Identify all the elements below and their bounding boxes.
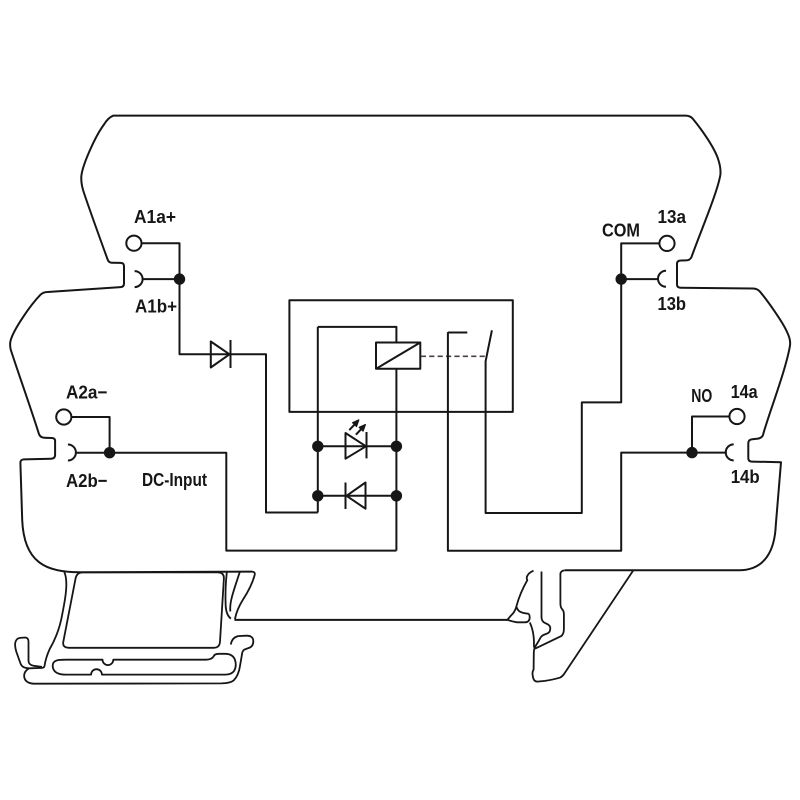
terminal circle A1a — [126, 236, 141, 251]
wire 13b to junction — [621, 278, 659, 280]
terminal circle 14a NO — [729, 409, 744, 424]
left foot right arm inner lines — [230, 572, 240, 612]
junction NO — [686, 447, 697, 458]
junction A2 — [104, 447, 115, 458]
svg-text:A1a+: A1a+ — [134, 206, 176, 227]
svg-text:DC-Input: DC-Input — [142, 469, 208, 490]
LED arrow 2 — [356, 429, 361, 434]
junction dots LED rows — [312, 441, 323, 452]
LED V1 — [346, 433, 367, 459]
left foot right edge to rail corner — [235, 572, 255, 620]
wire reverse diode row — [318, 495, 397, 497]
coil diagonal — [376, 343, 420, 369]
wire fixed contact to 14b — [448, 332, 727, 551]
wire LED row — [318, 445, 397, 447]
junction COM — [616, 273, 627, 284]
svg-text:13a: 13a — [658, 206, 687, 227]
terminal arc 14b — [726, 444, 734, 460]
left foot outer edge with thumb hook — [15, 572, 66, 669]
fixed contact top bar — [448, 332, 467, 334]
dashed actuation link — [421, 355, 486, 357]
svg-text:13b: 13b — [658, 293, 687, 314]
svg-text:A2b−: A2b− — [66, 470, 108, 491]
terminal arc A1b — [135, 271, 143, 287]
terminal arc A2b — [68, 445, 76, 461]
wire inner top link — [318, 327, 397, 343]
LED arrow 1 — [349, 425, 354, 430]
terminal circle 13a — [659, 236, 674, 251]
terminal circle A2a — [56, 409, 71, 424]
left foot window — [63, 572, 224, 647]
right foot groove right wall — [535, 570, 564, 648]
svg-text:A2a−: A2a− — [66, 382, 108, 403]
svg-text:14a: 14a — [731, 381, 758, 402]
svg-text:NO: NO — [691, 385, 712, 406]
svg-text:14b: 14b — [731, 466, 760, 487]
wire COM to moving contact — [486, 243, 660, 513]
left foot bottom bar outer — [24, 636, 253, 684]
wire junction to NO circle — [692, 417, 729, 453]
diode V2 reverse — [347, 483, 366, 509]
relay coil K1 — [376, 343, 420, 369]
wire A1b to junction — [142, 278, 180, 280]
right foot groove left wall — [532, 570, 633, 681]
right foot tab descent — [530, 623, 534, 648]
wire A2b to coil return — [75, 453, 396, 551]
wire coil bottom rail — [395, 369, 397, 551]
wire LED left rail — [317, 327, 319, 513]
diode D1 — [211, 342, 230, 368]
svg-text:COM: COM — [602, 220, 640, 241]
module housing outline — [10, 116, 790, 573]
wire A2a to junction — [71, 417, 109, 453]
right foot outer-left with clamp tab — [508, 571, 534, 623]
junction A1 — [174, 273, 185, 284]
DIN rail line — [235, 619, 508, 621]
left foot slot — [53, 654, 236, 675]
relay component box — [289, 300, 512, 412]
svg-text:A1b+: A1b+ — [135, 295, 177, 316]
wire from A1b junction through D1 to left rail — [180, 279, 318, 512]
terminal arc 13b — [658, 271, 666, 287]
wire A1a to junction — [142, 243, 180, 279]
